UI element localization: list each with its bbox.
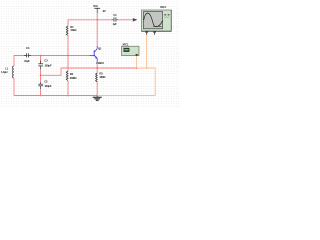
svg-text:XSC1: XSC1 [160,5,167,9]
scope pin B [153,31,156,32]
wire: C3 bottom to feedback node [40,69,42,82]
svg-text:100pF: 100pF [45,63,52,67]
wire: R1 bottom to base rail [67,35,69,56]
node: scope A tap [146,67,148,69]
instrument XFC1 (frequency counter) [122,43,139,56]
wire: VCC stem red [96,13,98,20]
node: VCC junction [96,19,98,21]
wire: L1 bottom to bottom rail [13,78,15,96]
svg-text:9V: 9V [103,9,106,13]
svg-text:480Ω: 480Ω [99,75,106,79]
wire: R3 bottom to ground [96,82,98,96]
node: emitter junction [96,67,98,69]
instrument XSC1 (oscilloscope) [142,5,172,35]
node: C2/C3 midpoint [40,75,42,77]
wire: scope A drop [146,35,148,69]
wire: feedback jog to emitter rail [41,68,98,75]
inductor L1 [1,66,14,78]
wire: collector from rail to Q1 [96,20,98,46]
svg-text:1µF: 1µF [113,22,118,26]
capacitor C4 [24,46,31,63]
node: base rail / R1-R2 junction [67,55,69,57]
capacitor C2 [38,80,52,89]
power VCC [93,4,106,13]
wire: C2 bottom to bottom rail [40,89,42,96]
ground [93,96,102,101]
svg-text:100pF: 100pF [45,84,52,88]
capacitor C3 [38,56,52,70]
scope pin A [145,31,148,32]
svg-text:10µF: 10µF [24,59,30,63]
wire arrow head [133,18,138,22]
transistor Q1 [90,46,105,65]
node: C3 tap [40,55,42,57]
svg-text:VCC: VCC [93,4,98,8]
node: R2 / bottom rail junction [67,95,69,97]
wire: emitter rail to instruments (red part) [97,67,136,69]
wire: base rail y55.5 from L1 corner to Q1 base [14,56,90,67]
wire: bottom rail [14,95,97,97]
resistor R1 [66,25,77,36]
wire: C1 to scope arrow [118,19,132,21]
wire: XFC1 drop [136,56,138,68]
resistor R2 [66,56,77,81]
node: ground junction [96,95,98,97]
wire: top rail y19.8 from R1 corner to C1 [68,20,112,26]
svg-text:1.3µH: 1.3µH [1,70,7,74]
wire: R2 bottom to bottom rail [67,81,69,96]
wire: instrument rail orange [97,68,155,96]
node: XFC1 tap [136,67,138,69]
svg-text:15kΩ: 15kΩ [70,28,77,32]
resistor R3 [96,72,107,82]
wire: emitter down [96,62,98,73]
capacitor C1 [112,13,119,26]
node: C2 / bottom rail junction [40,95,42,97]
